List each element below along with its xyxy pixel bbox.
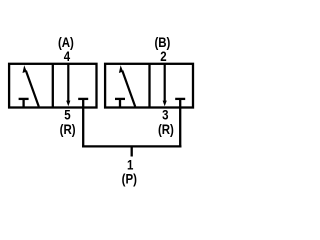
valve V1 left-cell flow arrow bbox=[23, 65, 39, 106]
valve V2 right-cell flow arrow 2 to 3 bbox=[163, 65, 167, 107]
valve V1 cell divider bbox=[52, 64, 54, 108]
svg-text:2: 2 bbox=[160, 48, 166, 64]
valve V2 right-cell blocked port T (port 1) bbox=[175, 99, 185, 107]
valve V2 left-cell blocked port T bbox=[115, 99, 125, 107]
valve V2 left-cell flow arrow bbox=[119, 65, 135, 106]
svg-text:(R): (R) bbox=[158, 121, 174, 137]
valve V1 left-cell blocked port T bbox=[19, 99, 29, 107]
wire: P manifold horizontal bbox=[82, 145, 181, 147]
svg-text:(R): (R) bbox=[60, 121, 76, 137]
valve V1 body (left, port A) bbox=[9, 64, 96, 108]
valve V2 cell divider bbox=[148, 64, 150, 108]
wire: V1 port 1 down bbox=[82, 107, 84, 148]
valve V1 right-cell flow arrow 4 to 5 bbox=[66, 65, 70, 107]
svg-text:(P): (P) bbox=[122, 170, 137, 186]
valve V2 body (right, port B) bbox=[105, 64, 193, 108]
svg-text:4: 4 bbox=[64, 48, 71, 64]
wire: V2 port 1 down bbox=[179, 107, 181, 148]
wire: P stub down to label 1 bbox=[131, 146, 133, 156]
valve V1 right-cell blocked port T (port 1) bbox=[78, 99, 88, 107]
